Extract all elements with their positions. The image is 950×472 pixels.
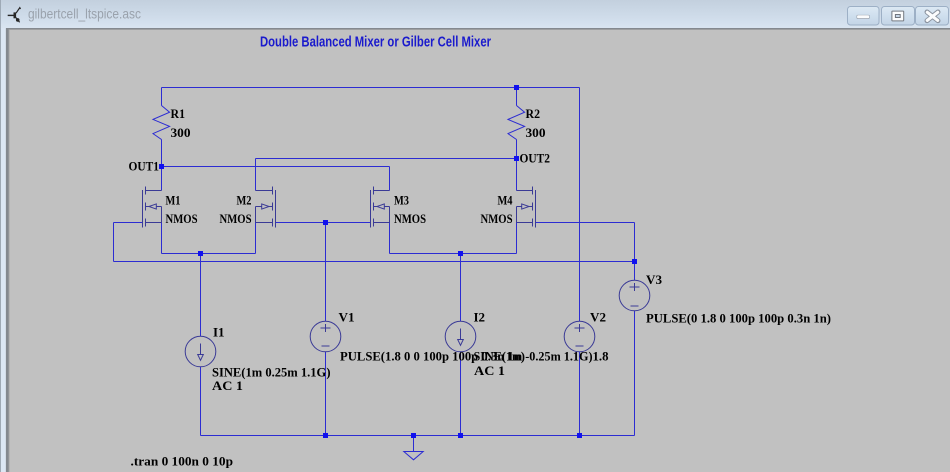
wire V3 bottom lead	[634, 311, 636, 436]
node OUT1	[159, 164, 164, 169]
schematic text inserted below	[129, 35, 832, 469]
wire R1 top lead	[161, 88, 163, 106]
wire node OUT1 horizontal	[162, 166, 390, 168]
wire source node to I1	[200, 254, 202, 337]
svg-text:I1: I1	[213, 325, 225, 340]
wire M4 source drop	[516, 223, 518, 254]
restore button	[882, 7, 915, 26]
schematic drawing inserted below	[114, 85, 650, 460]
wire M4 gate lead right	[536, 222, 635, 224]
left frame strip	[1, 28, 6, 472]
ground	[404, 452, 423, 460]
svg-text:V3: V3	[646, 272, 663, 287]
wire mid rail to V3 node	[114, 261, 635, 263]
svg-text:NMOS: NMOS	[220, 211, 252, 226]
wire bottom ground rail	[201, 435, 635, 437]
wire M1 gate lead	[114, 222, 143, 224]
current source I1	[185, 336, 216, 367]
transistor M1	[143, 187, 162, 228]
wire source node to I2	[460, 254, 462, 322]
current source I2	[445, 321, 476, 352]
svg-text:M2: M2	[237, 193, 252, 208]
node I2 bottom junction	[458, 433, 463, 438]
transistor M2	[256, 187, 276, 228]
svg-text:300: 300	[171, 125, 191, 140]
transistor M3	[371, 187, 390, 228]
svg-text:300: 300	[526, 125, 546, 140]
node V3 mid-rail junction	[632, 259, 637, 264]
voltage source V3	[619, 280, 650, 311]
node V2 bottom junction	[577, 433, 582, 438]
svg-text:M1: M1	[166, 193, 181, 208]
wire M4 gate down to V3	[634, 223, 636, 281]
svg-text:NMOS: NMOS	[481, 211, 513, 226]
wire OUT2 to M4 drain	[516, 159, 518, 191]
voltage source V1	[310, 321, 341, 352]
wire M1-M2 source link	[162, 253, 256, 255]
svg-text:NMOS: NMOS	[166, 211, 198, 226]
wire ground stem	[413, 436, 415, 452]
wire top rail right drop to V2 plus	[579, 88, 581, 322]
wire gate node down to V1 plus	[325, 223, 327, 322]
svg-text:M3: M3	[394, 193, 409, 208]
wire I2 bottom lead	[460, 352, 462, 436]
node OUT2	[514, 156, 519, 161]
svg-text:I2: I2	[474, 310, 486, 325]
wire R2 bottom to node OUT2	[516, 140, 518, 159]
wire top supply rail	[162, 87, 580, 89]
wire R2 top lead	[516, 88, 518, 106]
titlebar document icon	[8, 8, 21, 23]
wire V1 bottom lead	[325, 352, 327, 436]
resistor R2	[508, 106, 525, 140]
node gate V1 junction	[323, 220, 328, 225]
svg-text:R1: R1	[171, 106, 186, 121]
svg-text:V2: V2	[590, 310, 606, 325]
resistor R1	[153, 106, 170, 140]
node top rail R2 junction	[514, 85, 519, 90]
voltage source V2	[564, 321, 595, 352]
svg-text:SINE(1m -0.25m 1.1G): SINE(1m -0.25m 1.1G)	[474, 349, 593, 364]
svg-text:1.8: 1.8	[593, 349, 609, 364]
wire I1 bottom lead	[200, 367, 202, 436]
svg-text:AC 1: AC 1	[474, 363, 505, 378]
svg-text:OUT1: OUT1	[129, 159, 160, 174]
node I1 tail junction	[198, 251, 203, 256]
window left dark edge	[0, 0, 2, 472]
wire M1 source drop	[161, 223, 163, 254]
wire M1 gate down left	[113, 223, 115, 262]
svg-text:Double Balanced Mixer or Gilbe: Double Balanced Mixer or Gilber Cell Mix…	[260, 35, 491, 51]
node I2 tail junction	[458, 251, 463, 256]
wire OUT1 to M1 drain	[161, 167, 163, 191]
wire R1 bottom to node OUT1	[161, 140, 163, 167]
wire V2 bottom lead	[579, 352, 581, 436]
wire M3-M4 source link	[390, 253, 517, 255]
transistor M4	[517, 187, 536, 228]
svg-text:AC 1: AC 1	[212, 378, 243, 393]
svg-text:OUT2: OUT2	[520, 151, 551, 166]
svg-text:R2: R2	[526, 106, 541, 121]
svg-text:gilbertcell_ltspice.asc: gilbertcell_ltspice.asc	[28, 6, 141, 22]
svg-text:M4: M4	[498, 193, 513, 208]
wire M2 gate to M3 gate	[276, 222, 371, 224]
node V1 bottom junction	[323, 433, 328, 438]
svg-text:PULSE(0 1.8 0 100p 100p 0.3n 1: PULSE(0 1.8 0 100p 100p 0.3n 1n)	[646, 310, 831, 325]
svg-text:V1: V1	[339, 310, 355, 325]
wire M2 drain rise	[255, 159, 257, 191]
wire M3 drain drop	[389, 167, 391, 191]
wire node OUT2 horizontal	[256, 158, 517, 160]
wire M3 source drop	[389, 223, 391, 254]
close button	[916, 7, 949, 26]
window title bar	[0, 0, 950, 29]
svg-text:.tran 0 100n 0 10p: .tran 0 100n 0 10p	[131, 454, 234, 469]
wire M2 source drop	[255, 223, 257, 254]
node ground junction	[411, 433, 416, 438]
svg-text:NMOS: NMOS	[394, 211, 426, 226]
minimize button	[848, 7, 880, 26]
